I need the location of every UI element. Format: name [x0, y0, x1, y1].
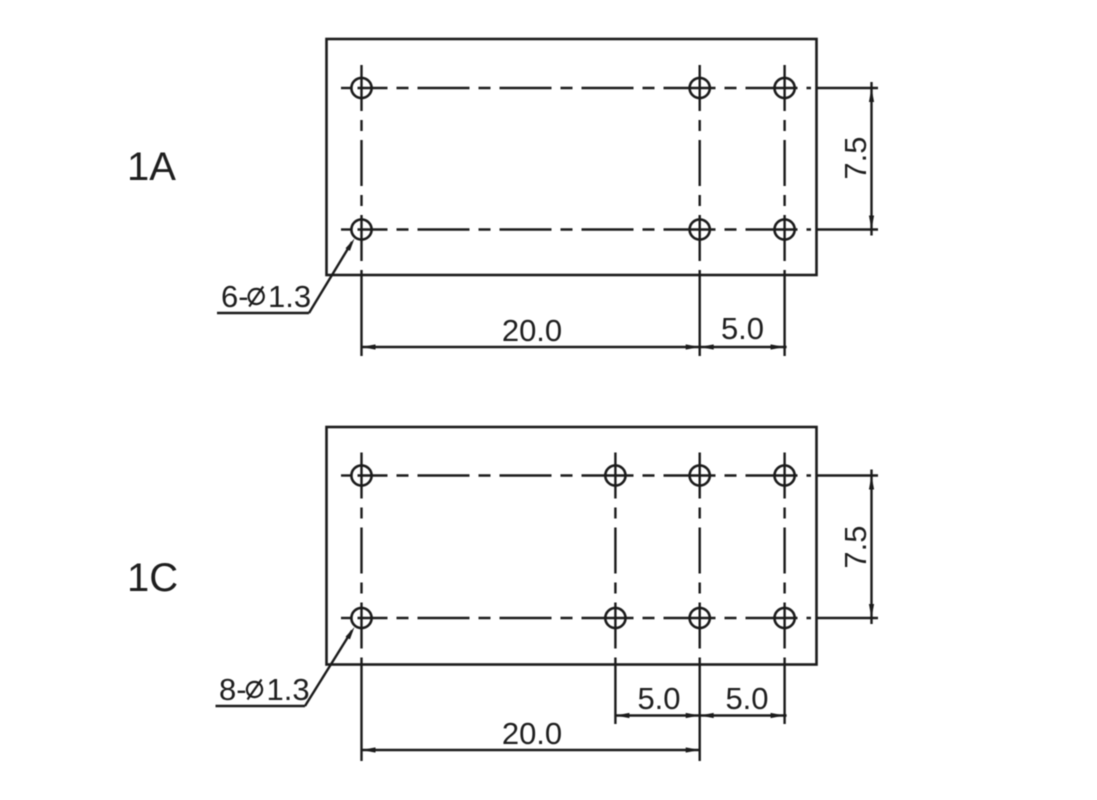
svg-text:1.3: 1.3: [268, 279, 311, 314]
svg-text:8-: 8-: [219, 672, 247, 707]
hole H3 (1A): [775, 78, 795, 98]
dimension 5.0 (1A): [700, 311, 787, 350]
hole H2 (1C): [605, 465, 625, 485]
svg-text:5.0: 5.0: [721, 311, 764, 346]
centre line column A (1A): [360, 63, 362, 356]
centre line column A (1C): [360, 451, 362, 761]
centre line row 1 (1A): [341, 87, 878, 89]
centre line column C (1A): [783, 63, 785, 356]
hole H7 (1C): [690, 608, 710, 628]
centre line column B (1A): [699, 63, 701, 356]
leader 8-Ø 1.3 (1C): [216, 627, 355, 707]
hole H3 (1C): [690, 465, 710, 485]
hole H6 (1C): [605, 608, 625, 628]
board outline 1A: [327, 39, 817, 275]
hole H5 (1A): [690, 219, 710, 239]
hole H2 (1A): [690, 78, 710, 98]
svg-text:7.5: 7.5: [838, 525, 873, 568]
hole H1 (1A): [351, 78, 371, 98]
svg-text:20.0: 20.0: [502, 313, 562, 348]
label 1A: [127, 145, 176, 189]
hole H5 (1C): [351, 608, 371, 628]
dimension 7.5 (1A): [838, 82, 874, 236]
svg-text:1C: 1C: [127, 556, 178, 600]
hole H6 (1A): [775, 219, 795, 239]
svg-text:20.0: 20.0: [502, 716, 562, 751]
centre line row 1 (1C): [341, 474, 878, 476]
svg-text:1.3: 1.3: [267, 672, 310, 707]
centre line column D (1C): [614, 451, 616, 724]
hole H4 (1C): [775, 465, 795, 485]
hole H1 (1C): [351, 465, 371, 485]
centre line row 2 (1A): [341, 228, 878, 230]
svg-text:6-: 6-: [221, 279, 249, 314]
hole H4 (1A): [351, 219, 371, 239]
svg-text:1A: 1A: [127, 145, 176, 189]
dimension 5.0 left (1C): [615, 681, 699, 718]
dimension 20.0 (1A): [362, 313, 700, 350]
centre line column C (1C): [783, 451, 785, 724]
centre line column B (1C): [699, 451, 701, 761]
centre line row 2 (1C): [341, 617, 878, 619]
dimension 5.0 right (1C): [700, 681, 787, 718]
leader 6-Ø 1.3 (1A): [217, 239, 355, 315]
svg-text:5.0: 5.0: [637, 681, 680, 716]
svg-text:5.0: 5.0: [725, 681, 768, 716]
hole H8 (1C): [775, 608, 795, 628]
dimension 20.0 (1C): [362, 716, 700, 753]
svg-text:7.5: 7.5: [838, 136, 873, 179]
board outline 1C: [327, 427, 817, 665]
dimension 7.5 (1C): [838, 470, 874, 625]
label 1C: [127, 556, 178, 600]
